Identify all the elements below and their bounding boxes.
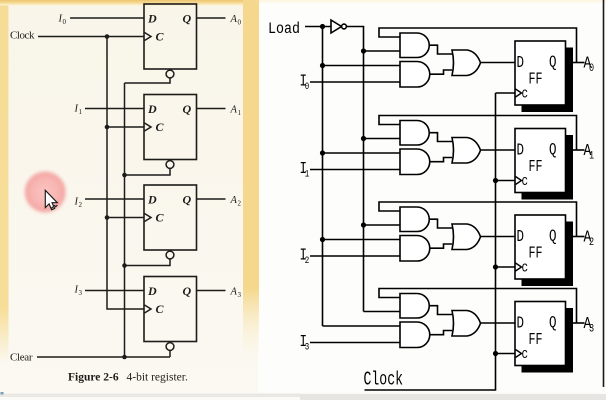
svg-text:Q: Q: [549, 315, 557, 333]
wire AND2a to OR2: [430, 219, 453, 228]
svg-text:FF: FF: [529, 159, 543, 177]
flip-flop FF bit2 box: [515, 215, 566, 279]
junction clear bus at FF2: [122, 173, 127, 178]
wire load to AND3b: [323, 325, 401, 327]
junction Load bus: [320, 24, 325, 29]
inverter U1 bubble: [342, 24, 347, 29]
svg-text:C: C: [156, 120, 165, 134]
wire load to AND0b: [323, 65, 401, 67]
svg-text:C: C: [156, 30, 165, 44]
junction clock bus at FF2: [105, 125, 110, 130]
label A2: [584, 227, 595, 248]
clock triangle bit2: [516, 263, 522, 271]
svg-text:Q: Q: [183, 284, 192, 298]
wire Q2 to A1: [197, 108, 226, 110]
svg-text:4-bit register.: 4-bit register.: [127, 372, 188, 384]
AND gate bottom bit1: [400, 149, 430, 175]
wire inverted load to AND2a: [364, 224, 401, 226]
svg-text:D: D: [147, 102, 157, 116]
wire OR0 to D: [481, 62, 516, 64]
svg-text:0: 0: [305, 81, 309, 92]
svg-text:D: D: [147, 193, 157, 207]
junction load bus bit2: [320, 237, 325, 242]
wire I2 to FF3 D: [85, 198, 144, 200]
svg-text:A: A: [230, 105, 238, 116]
wire AND1b to OR1: [430, 158, 452, 162]
clock triangle FF2: [145, 123, 152, 131]
reset bubble FF1: [166, 70, 174, 78]
wire I1 to FF2 D: [85, 108, 144, 110]
svg-text:D: D: [517, 142, 525, 160]
svg-text:Q: Q: [549, 54, 557, 72]
svg-text:Q: Q: [183, 193, 192, 207]
svg-text:c: c: [522, 259, 529, 276]
wire load to AND1b: [323, 152, 401, 154]
svg-text:A: A: [230, 14, 238, 25]
wire clock bus vertical right: [365, 93, 496, 390]
mouse cursor: [45, 190, 57, 209]
clock triangle FF1: [145, 33, 152, 41]
wire A1 feedback: [379, 116, 577, 151]
svg-text:D: D: [517, 55, 525, 73]
wire FF1 reset to clear bus: [125, 78, 171, 83]
svg-text:Clock: Clock: [364, 370, 404, 392]
svg-text:2: 2: [589, 236, 594, 248]
flip-flop FF1 box: [144, 4, 197, 69]
wire clear bus vertical: [124, 83, 126, 357]
svg-text:D: D: [147, 12, 157, 26]
svg-text:1: 1: [589, 150, 594, 162]
label A1: [584, 140, 595, 161]
wire OR1 to D: [481, 149, 516, 151]
svg-text:Q: Q: [549, 142, 557, 160]
OR gate bit2: [452, 224, 481, 250]
flip-flop FF3 box: [144, 185, 197, 250]
wire A0 feedback: [379, 28, 577, 63]
svg-text:0: 0: [589, 62, 594, 74]
AND gate top bit2: [400, 207, 429, 232]
label A0: [584, 53, 595, 74]
junction clock bus bit2: [493, 264, 498, 269]
AND gate top bit0: [400, 33, 429, 58]
wire AND3b to OR3: [430, 331, 452, 335]
junction load bus bit0: [320, 63, 325, 68]
svg-text:2: 2: [238, 200, 242, 208]
wire clock bus vertical: [107, 37, 144, 310]
AND gate top bit1: [400, 121, 429, 146]
wire clock bus to C bit0: [496, 92, 516, 94]
junction clear bus at Clear wire: [122, 355, 127, 360]
wire Q to A0: [573, 62, 585, 64]
wire Clear input: [37, 356, 170, 358]
cursor highlight circle: [0, 0, 1, 1]
OR gate bit3: [452, 311, 481, 337]
wire clock to C bit1: [496, 180, 516, 182]
reset bubble FF4: [166, 343, 174, 351]
label A3: [584, 313, 595, 334]
svg-text:0: 0: [238, 19, 242, 27]
wire Q3 to A2: [197, 198, 226, 200]
AND gate bottom bit3: [400, 322, 430, 348]
svg-text:FF: FF: [529, 245, 543, 263]
wire inverter output: [347, 27, 364, 52]
svg-text:FF: FF: [529, 332, 543, 350]
svg-text:3: 3: [305, 342, 309, 353]
svg-text:c: c: [522, 346, 529, 363]
wire A3 feedback: [379, 289, 577, 324]
label I2: [300, 247, 310, 266]
label I1: [300, 161, 310, 180]
junction clock bus at FF1: [105, 34, 110, 39]
wire AND0a to OR0: [430, 45, 453, 54]
wire inverted load to AND1a: [364, 138, 401, 140]
AND gate bottom bit2: [400, 236, 430, 262]
svg-text:2: 2: [79, 201, 83, 209]
junction clock bus bit1: [493, 178, 498, 183]
flip-flop FF bit2 shadow: [522, 222, 574, 287]
svg-text:3: 3: [79, 289, 83, 297]
wire I1 to AND1b: [310, 169, 400, 171]
flip-flop FF bit1 shadow: [522, 135, 574, 200]
junction inverted bus bit1: [361, 136, 366, 141]
wire Q to A3: [573, 322, 585, 324]
svg-text:Figure 2-6: Figure 2-6: [68, 372, 119, 384]
OR gate bit0: [452, 50, 481, 76]
clock triangle bit0: [516, 89, 522, 97]
svg-text:1: 1: [238, 109, 242, 117]
label I3: [300, 334, 310, 353]
wire clock to C bit2: [496, 266, 516, 268]
svg-text:D: D: [147, 284, 157, 298]
svg-text:Load: Load: [268, 21, 300, 38]
AND gate bottom bit0: [400, 62, 430, 88]
junction inverted bus bit2: [361, 222, 366, 227]
reset bubble FF3: [166, 251, 174, 259]
svg-text:C: C: [156, 211, 165, 225]
svg-text:0: 0: [63, 18, 67, 26]
wire I0 to FF1 D: [70, 17, 144, 19]
wire Q to A1: [573, 149, 585, 151]
wire clock to FF2 C: [107, 126, 144, 128]
svg-text:Q: Q: [183, 12, 192, 26]
flip-flop FF4 box: [144, 277, 197, 342]
clock triangle bit1: [516, 177, 522, 185]
wire OR3 to D: [481, 322, 516, 324]
wire Q4 to A3: [197, 290, 226, 292]
flip-flop FF2 box: [144, 95, 197, 160]
svg-text:A: A: [230, 287, 238, 298]
flip-flop FF bit3 box: [515, 302, 566, 366]
flip-flop FF bit0 box: [515, 41, 566, 105]
reset bubble FF2: [166, 161, 174, 169]
wire clock to C bit3: [496, 353, 516, 355]
wire inverted load bus vertical: [363, 51, 365, 312]
svg-text:Q: Q: [549, 228, 557, 246]
svg-text:D: D: [517, 229, 525, 247]
svg-text:Clear: Clear: [10, 352, 33, 364]
clock triangle FF3: [145, 214, 152, 222]
svg-text:FF: FF: [529, 71, 543, 89]
svg-text:D: D: [517, 315, 525, 333]
svg-text:Q: Q: [183, 102, 192, 116]
svg-text:3: 3: [238, 291, 242, 299]
junction clear bus at FF3: [122, 263, 127, 268]
junction inverted bus bit0: [361, 48, 366, 53]
wire Clock input: [38, 36, 144, 38]
flip-flop FF bit1 box: [515, 129, 566, 193]
flip-flop FF bit0 shadow: [522, 48, 574, 113]
wire inverted load to AND3a: [364, 311, 401, 313]
wire A2 feedback: [379, 202, 577, 237]
svg-text:c: c: [522, 85, 529, 102]
wire I0 to AND0b: [310, 81, 400, 83]
flip-flop FF bit3 shadow: [522, 308, 574, 373]
wire FF3 reset to clear bus: [125, 259, 171, 266]
clock triangle bit3: [516, 350, 522, 358]
junction clock bus at FF3: [105, 215, 110, 220]
svg-text:1: 1: [305, 169, 309, 180]
svg-text:Clock: Clock: [10, 30, 35, 42]
wire I3 to FF4 D: [85, 290, 144, 292]
svg-text:2: 2: [305, 255, 309, 266]
OR gate bit1: [452, 138, 481, 164]
wire FF4 reset to Clear: [169, 350, 171, 357]
svg-text:A: A: [230, 195, 238, 206]
wire AND2b to OR2: [430, 244, 452, 248]
junction load bus bit1: [320, 150, 325, 155]
AND gate top bit3: [400, 294, 429, 319]
inverter U1: [331, 20, 342, 33]
svg-text:3: 3: [589, 323, 594, 335]
wire OR2 to D: [481, 236, 516, 238]
wire load to AND2b: [323, 239, 401, 241]
svg-text:1: 1: [79, 108, 83, 116]
wire AND3a to OR3: [430, 306, 453, 315]
wire I3 to AND3b: [310, 342, 400, 344]
wire clock to FF3 C: [107, 217, 144, 219]
label I0: [300, 73, 310, 92]
svg-text:c: c: [522, 173, 529, 190]
clock triangle FF4: [145, 305, 152, 313]
wire Load input: [305, 26, 331, 28]
svg-text:C: C: [156, 302, 165, 316]
wire I2 to AND2b: [310, 255, 400, 257]
wire Q1 to A0: [197, 17, 226, 19]
wire load bus vertical: [322, 27, 324, 327]
wire FF2 reset to clear bus: [125, 168, 171, 175]
wire AND1a to OR1: [430, 133, 453, 142]
wire Q to A2: [573, 236, 585, 238]
wire AND0b to OR0: [430, 70, 452, 74]
wire inverted load to AND0a: [364, 50, 401, 52]
junction clock bus bit3: [493, 351, 498, 356]
